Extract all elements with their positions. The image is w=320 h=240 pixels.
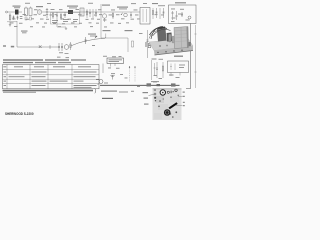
table column line 3	[47, 65, 49, 89]
arrowhead on shield	[129, 66, 130, 68]
wire screen feed	[100, 4, 102, 38]
rectifier D2	[175, 11, 178, 20]
bottom photo: grommet ring right	[175, 89, 177, 91]
dashed shield line 2	[134, 66, 136, 82]
tube V6	[64, 45, 69, 50]
ground	[65, 27, 67, 29]
rectifier D1	[171, 11, 174, 20]
label S1	[11, 46, 14, 48]
label R6 value cluster	[73, 19, 78, 20]
label under box	[169, 75, 174, 76]
wire grid drop	[9, 13, 11, 21]
chassis photo: cable arc 2	[153, 29, 171, 36]
label inside supply box	[178, 14, 183, 15]
wire stub from box 1	[170, 73, 172, 77]
wire shielded audio cable	[71, 38, 106, 47]
relay K1	[148, 44, 151, 48]
chassis photo: panel vents	[175, 30, 188, 41]
resistor R8	[152, 8, 154, 19]
chassis photo: tube 1	[169, 34, 172, 42]
capacitor C6	[64, 12, 66, 18]
resistor R1	[9, 15, 11, 20]
power supply box U1	[169, 5, 197, 24]
capacitor C9	[104, 18, 106, 22]
table column line 2	[29, 65, 31, 89]
label V2 6BA6	[36, 6, 43, 7]
bottom photo: trimmer circle	[167, 91, 169, 93]
footnote bracket	[95, 88, 96, 93]
label Q1	[96, 79, 100, 80]
label R1 value	[20, 16, 23, 17]
wire input lead	[8, 11, 23, 13]
bottom photo: top edge	[153, 88, 182, 91]
table row line 2	[3, 78, 100, 80]
transformer T3	[68, 10, 73, 14]
resistor R6	[92, 9, 94, 18]
label speaker section	[152, 3, 158, 4]
table footnote line 2	[3, 92, 36, 93]
labels above right section	[152, 59, 157, 60]
capacitor C11	[156, 8, 158, 18]
resistor R3	[52, 12, 54, 19]
wire driver drop	[105, 34, 107, 39]
resistor R14	[162, 62, 164, 78]
pilot lamp PL1	[188, 16, 191, 19]
wire right margin lead	[194, 25, 196, 88]
table row 4 text	[4, 85, 7, 86]
label edge note	[3, 45, 6, 46]
wire cathode return	[57, 19, 66, 27]
table column line 1	[6, 65, 8, 89]
table row line 1	[3, 74, 100, 76]
wire B+ riser	[186, 24, 191, 89]
component value labels cluster (schematic texture)	[10, 3, 190, 92]
table row line 3	[3, 83, 100, 85]
chassis photo: panel right shade	[187, 27, 189, 48]
selenium rectifier box	[168, 61, 189, 73]
interstage block diagram box	[107, 58, 124, 63]
ground input	[9, 22, 11, 26]
parts table title line 1	[3, 59, 43, 60]
resistor R5	[86, 9, 88, 18]
wire B+ bottom bus	[100, 84, 180, 86]
label V8 6BQ5	[125, 30, 133, 31]
table footnote line 1	[3, 90, 94, 92]
wire switch arm	[17, 46, 58, 48]
label power supply	[175, 2, 186, 3]
table header text	[3, 66, 6, 67]
svg-text:SHERWOOD S-2200: SHERWOOD S-2200	[5, 112, 34, 116]
IF transformer T2	[25, 8, 28, 16]
table row 1 text	[4, 72, 7, 73]
wire block drop	[102, 64, 104, 74]
capacitor C15	[84, 37, 86, 44]
bottom photo: knob pointer bar	[169, 102, 178, 109]
resistor R10	[70, 42, 72, 50]
resistor R7	[112, 12, 114, 19]
wire stub from box 2	[179, 73, 181, 76]
chassis photo: tube 2	[172, 36, 174, 43]
wire main B+ bus	[47, 11, 100, 13]
fuse F1 on bus	[171, 83, 176, 86]
shield box around IF section	[51, 13, 80, 25]
bottom photo: IF can ring	[160, 90, 165, 95]
chassis photo: deck fittings	[159, 45, 161, 47]
chassis photo: front apron	[154, 46, 193, 55]
label above antenna	[111, 72, 115, 75]
wire to switch	[16, 21, 18, 25]
capacitor C8	[95, 9, 97, 17]
note row under bus	[101, 91, 117, 92]
phase arrow	[95, 36, 98, 39]
switch S1	[39, 45, 42, 48]
callout leader right 2	[176, 104, 182, 106]
bottom photo: bracket marks	[171, 91, 172, 94]
label V5 6BQ5 OUTPUT	[117, 7, 128, 8]
wire output drop	[127, 38, 129, 52]
wire band switch drop	[16, 25, 18, 47]
chassis photo: choke	[167, 33, 173, 42]
capacitor C16	[146, 30, 148, 58]
junction blob on bus	[157, 84, 161, 86]
table row 2 text	[4, 76, 7, 77]
chassis photo: rear bracket	[188, 42, 191, 46]
schematic right: resistor R13	[151, 60, 153, 80]
wire stubs below block	[111, 63, 116, 66]
rectifier internals	[170, 64, 175, 71]
chassis photo: cable arc 1	[150, 27, 168, 35]
parts table title line 2	[3, 62, 33, 63]
tube V5	[124, 13, 128, 17]
IF transformer T4	[80, 8, 84, 16]
capacitor C3	[25, 17, 27, 20]
label C6 value cluster	[63, 19, 69, 20]
capacitor C14a	[58, 43, 60, 51]
chassis photo: cable arc 1b	[151, 27, 163, 40]
capacitor C17	[156, 62, 158, 78]
volume control arrow	[121, 12, 124, 15]
tube V4	[102, 14, 106, 18]
transformer T1	[15, 10, 19, 15]
label V4 6AV6	[102, 5, 110, 6]
capacitor C1	[13, 16, 15, 21]
capacitor C14b	[61, 43, 63, 51]
tube V2	[37, 10, 42, 15]
label tone stack	[88, 34, 96, 35]
table header line	[3, 69, 100, 71]
output transformer T5	[140, 8, 150, 25]
resistor R12	[132, 41, 134, 47]
extra vertical lead right section	[154, 63, 156, 76]
capacitor C12	[163, 8, 165, 18]
bottom photo: tube socket	[164, 109, 171, 116]
parts table frame	[3, 65, 100, 89]
electrolytic C4	[46, 8, 48, 18]
label cluster values	[59, 51, 63, 54]
transistor Q1	[99, 80, 103, 84]
bottom photo: screws and specks	[159, 100, 161, 102]
bottom photo: mottling	[156, 96, 164, 103]
callout labels right	[183, 92, 185, 93]
chassis photo: caption	[174, 56, 183, 57]
wire cathode bar	[7, 21, 17, 23]
terminal strip on bus	[147, 83, 152, 86]
chassis photo: deck	[149, 39, 193, 51]
callout leader right 1	[178, 95, 182, 97]
capacitor C7	[89, 9, 91, 17]
junction tick	[49, 45, 51, 49]
chassis photo: power transformer	[157, 29, 167, 42]
scale bar	[102, 97, 113, 99]
chassis photo: side label	[145, 42, 148, 47]
capacitor C2	[17, 16, 19, 21]
label V3 6AU6 IF AMP	[67, 6, 78, 7]
table column line 4	[71, 65, 73, 89]
table row 3 text	[4, 81, 7, 82]
capacitor C13	[181, 12, 183, 17]
wire coupling	[101, 37, 128, 39]
chassis photo: panel seam	[180, 27, 182, 48]
label V1 12BE6	[13, 6, 21, 7]
resistor R9	[159, 8, 161, 19]
bottom photo: left column marks	[154, 89, 156, 92]
label V7 6BQ5	[103, 30, 111, 31]
dashed shield line 1	[129, 66, 131, 82]
bottom photo: plate	[153, 89, 182, 121]
capacitor C5	[56, 12, 58, 19]
bottom photo: callout labels left	[143, 92, 149, 93]
chassis photo: tall shield panel	[174, 27, 189, 49]
label tuning note	[21, 31, 28, 32]
wire plate lead	[42, 11, 47, 13]
label R5 value cluster	[52, 20, 58, 21]
wire detector bus	[100, 11, 140, 13]
chassis photo: apron bottom edge	[155, 51, 194, 56]
node ANT input terminal	[6, 11, 8, 13]
chassis photo: cable arc 3	[149, 31, 160, 39]
callout arrow	[149, 94, 155, 95]
capacitor C10	[130, 12, 132, 18]
label bias note	[151, 81, 159, 82]
antenna symbol	[110, 75, 114, 79]
chassis photo: transformer cap	[157, 27, 166, 30]
resistor R4	[60, 13, 62, 20]
resistor R2	[30, 17, 32, 20]
